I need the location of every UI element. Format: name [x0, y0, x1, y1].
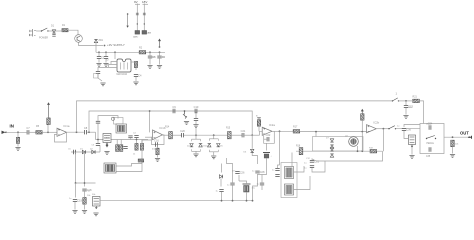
svg-text:C22: C22 — [266, 133, 271, 137]
wire tone corner2 — [312, 159, 316, 161]
wire right cluster link — [253, 181, 258, 201]
wire +9V rail — [96, 51, 139, 53]
node rail at C2 — [105, 51, 107, 53]
node chain A — [137, 23, 138, 24]
wire cluster row — [96, 139, 149, 141]
wire fb2 down — [266, 143, 268, 150]
capacitor chain B mid — [143, 13, 146, 15]
svg-text:IC2b: IC2b — [373, 121, 379, 125]
wire c25 rail — [232, 186, 234, 201]
wire bias3 — [361, 120, 363, 131]
label c31 — [304, 163, 307, 170]
wire vr7 link — [404, 131, 409, 139]
svg-text:10u: 10u — [252, 188, 256, 190]
wire c26 down — [238, 175, 240, 181]
wire U1 pin right — [131, 62, 136, 70]
svg-text:D7: D7 — [326, 138, 330, 140]
label PEDAL SW — [427, 142, 435, 145]
routing rect tone left — [281, 163, 297, 198]
resistor R5 series — [36, 131, 43, 134]
diode D15 tone2 — [330, 154, 333, 157]
label d45 — [80, 149, 94, 151]
resistor R22 out load — [451, 140, 454, 147]
svg-text:IC1a: IC1a — [64, 124, 70, 128]
input terminal — [2, 131, 7, 134]
wire IC1b feedback — [152, 135, 165, 145]
capacitor C16 feedback — [154, 138, 159, 146]
wire r14 to c20 — [172, 134, 181, 136]
label r18 — [296, 146, 301, 148]
wire r11 gnd — [157, 155, 159, 158]
label r14 — [165, 127, 170, 129]
capacitor C11 bias — [194, 119, 198, 121]
node cluster b — [136, 139, 138, 141]
label c18 — [88, 191, 91, 193]
diode pair DP2 — [209, 139, 218, 152]
node link a — [75, 182, 77, 184]
node bias mid — [184, 110, 186, 112]
switch SW3 — [388, 126, 396, 130]
ground bias2 — [184, 122, 189, 125]
label r22 — [455, 144, 459, 146]
tick above R16 — [256, 116, 261, 120]
svg-text:R18: R18 — [296, 146, 301, 148]
wire chain A — [136, 4, 138, 31]
node after C8 — [88, 131, 90, 133]
label c25 — [227, 185, 230, 187]
svg-text:C2: C2 — [106, 60, 110, 62]
label c37 — [257, 184, 260, 186]
svg-text:C20: C20 — [180, 129, 185, 133]
wire stair to dark pot — [116, 140, 152, 166]
resistor R1 — [62, 29, 68, 32]
wire U1 pin left 1 — [111, 62, 117, 65]
wire c27 rail — [246, 192, 248, 201]
capacitor C15b small — [128, 136, 132, 138]
wire IC1a out — [67, 131, 84, 133]
wire lower row — [71, 151, 100, 153]
label r13 — [87, 195, 91, 197]
node rail at C6 — [159, 51, 161, 53]
resistor R21 rail — [413, 99, 420, 102]
node +9V supply — [104, 45, 106, 47]
diode D8 — [208, 144, 211, 147]
wire c27 links — [239, 181, 247, 184]
wire c33 drop — [405, 101, 407, 105]
label c35 — [426, 156, 431, 158]
diode pair DP1 — [192, 139, 201, 151]
wire left col link — [294, 166, 305, 172]
svg-text:1k: 1k — [133, 154, 136, 156]
resistor R15 on line — [228, 131, 232, 139]
electrolytic C27 — [243, 184, 251, 192]
svg-text:C7: C7 — [26, 126, 30, 130]
label sw2 — [396, 92, 398, 96]
wire main into cluster — [95, 132, 97, 139]
svg-text:C19: C19 — [77, 199, 82, 203]
svg-text:1u: 1u — [304, 163, 307, 165]
svg-text:IN: IN — [10, 124, 14, 129]
wire R5 to opamp — [42, 131, 57, 133]
wire C1 drop — [98, 52, 100, 56]
label q2 — [345, 136, 349, 138]
node rail c — [246, 200, 248, 202]
wire C6 to gnd — [159, 59, 161, 65]
capacitor C26 — [235, 171, 245, 175]
ground pot VR2 — [104, 152, 109, 155]
wire d11 down — [220, 179, 222, 187]
node loop takeoff — [76, 131, 78, 133]
node arrow base — [159, 46, 161, 48]
wire c11 to gnd — [195, 121, 197, 124]
svg-text:C4: C4 — [133, 133, 137, 135]
resistor R17 series — [293, 130, 300, 133]
label c26 — [232, 171, 236, 173]
wire switch to D1 — [48, 30, 54, 32]
op-amp IC2b — [367, 121, 380, 133]
node link b — [84, 182, 86, 184]
diode D3 diagonal — [183, 111, 187, 119]
svg-text:R17: R17 — [293, 126, 298, 129]
label r17 — [293, 126, 298, 129]
wire D1 to R1 — [54, 30, 62, 32]
LED B bottom — [142, 31, 151, 35]
wire rail corner down — [419, 101, 423, 124]
diode D11 — [219, 175, 222, 178]
diode D5 lower — [92, 150, 95, 153]
diode D14 tone — [330, 148, 333, 151]
svg-text:10u: 10u — [152, 57, 156, 59]
wire IC2a out — [272, 130, 294, 132]
wire R2 tee to IC1b — [149, 111, 151, 132]
wire c19 gnd — [74, 202, 76, 210]
svg-text:C5: C5 — [68, 149, 72, 151]
ground r13 — [82, 211, 87, 214]
wire v84 — [84, 152, 86, 187]
capacitor C35 box bottom — [429, 147, 431, 151]
label c13 — [92, 145, 96, 147]
wire c13 stub — [97, 140, 99, 144]
op-amp IC2a — [262, 123, 275, 135]
wire loop rail R2 — [89, 111, 252, 135]
node IC2b out — [383, 128, 385, 130]
ground clip2 — [211, 156, 216, 159]
ground under C4 — [133, 82, 138, 85]
bypass box — [420, 124, 444, 154]
capacitor C19 bottom — [73, 199, 83, 203]
capacitor C31 — [310, 159, 320, 163]
svg-text:OUT: OUT — [460, 131, 469, 136]
net arrow +18V up from rail — [158, 39, 161, 48]
capacitor chain A mid — [136, 13, 139, 15]
wire IC1a feedback — [55, 132, 67, 142]
svg-text:D1: D1 — [80, 149, 84, 151]
wire jack to power switch — [36, 30, 41, 32]
node tone a — [357, 150, 359, 152]
wire C4 to gnd — [135, 77, 137, 81]
LED A bottom — [134, 31, 140, 39]
capacitor C10 on rail — [194, 105, 199, 113]
svg-text:C10: C10 — [194, 105, 199, 109]
svg-text:C9: C9 — [172, 105, 176, 109]
wire c22 stub — [264, 138, 267, 140]
svg-text:R14: R14 — [165, 127, 170, 129]
wire stair2 — [116, 164, 142, 172]
wire C7 to R5 — [29, 131, 36, 133]
wire jog up IC2a — [260, 131, 263, 135]
capacitor C5 — [148, 55, 156, 59]
capacitor C17 lower — [74, 150, 76, 154]
wire chain B — [143, 4, 145, 31]
label c5v — [152, 57, 156, 59]
node rail a — [221, 200, 223, 202]
svg-text:1u: 1u — [252, 171, 255, 173]
label chainA bot — [133, 37, 137, 39]
svg-text:D2: D2 — [90, 149, 94, 151]
node box drop — [315, 131, 317, 133]
ground clip1 — [193, 154, 198, 157]
label r15 — [226, 128, 231, 130]
svg-text:1u: 1u — [397, 126, 400, 128]
wire c25 top — [232, 169, 234, 184]
wire stub above clip1 — [195, 128, 197, 135]
svg-text:R15: R15 — [226, 128, 231, 130]
ground c19 — [72, 211, 77, 214]
label dp1 — [187, 146, 206, 148]
diode D12 in box — [330, 139, 333, 142]
svg-text:D6: D6 — [244, 152, 248, 154]
wire c32 down — [312, 161, 325, 172]
svg-text:+9V SUPPLY: +9V SUPPLY — [107, 43, 125, 47]
svg-text:1u: 1u — [272, 170, 275, 172]
capacitor C13 cluster left lower — [96, 144, 100, 146]
label D1 — [51, 25, 55, 28]
label c27 — [252, 188, 256, 190]
label c6v — [162, 57, 166, 59]
wire c18 down — [84, 192, 86, 198]
wire vr4 to rail stub — [99, 200, 101, 202]
wire vr7 gnd — [411, 147, 413, 155]
wire C1 to gnd — [98, 59, 100, 63]
svg-text:MAX1044: MAX1044 — [117, 73, 128, 76]
wire fb resistor drop — [157, 145, 159, 149]
wire main to IC2b — [300, 131, 367, 133]
ground under C2 — [103, 64, 108, 67]
label chainB bot — [148, 33, 152, 35]
wire lower tone line — [296, 150, 383, 152]
ground under C6 — [157, 66, 162, 69]
resistor R18 tone — [299, 148, 303, 155]
svg-text:10k: 10k — [87, 195, 91, 197]
label vr4 — [92, 194, 96, 196]
capacitor C32 — [310, 166, 314, 168]
wire c15 down — [136, 138, 138, 144]
capacitor C37 — [260, 183, 264, 185]
svg-text:R2: R2 — [139, 47, 143, 50]
svg-text:IC2a: IC2a — [269, 123, 275, 127]
wire C2 drop — [105, 52, 107, 56]
node bias join — [47, 131, 49, 133]
wire c12 down — [97, 124, 99, 140]
wire clip1 drop — [195, 135, 197, 139]
node IC2a in — [251, 134, 253, 136]
wire C5 drop — [149, 52, 151, 55]
capacitor C18 mid-left — [82, 188, 92, 192]
capacitor C28 — [255, 170, 265, 174]
svg-text:C21: C21 — [241, 129, 246, 133]
wire IC2a feedback — [264, 131, 275, 143]
label ZD — [99, 39, 104, 42]
transistor Q2 — [349, 137, 359, 147]
pot VR1 dark — [116, 124, 127, 133]
ground r22 — [450, 155, 455, 158]
label c23 — [271, 156, 273, 158]
wire R4 drop — [17, 132, 19, 137]
svg-text:C28: C28 — [260, 170, 265, 174]
svg-text:C16: C16 — [154, 138, 159, 142]
label R2 — [139, 47, 143, 50]
wire C6 drop — [159, 52, 161, 55]
resistor R3 beside U1 — [134, 61, 137, 67]
label U1 MAX1044 — [117, 73, 128, 76]
capacitor C6 — [157, 55, 165, 59]
label R1 — [62, 24, 66, 27]
resistor R14 series — [169, 131, 173, 139]
wire bias drop right — [195, 112, 197, 119]
wire IC1b out — [163, 134, 169, 136]
wire c33 gnd — [405, 108, 407, 115]
label c28 — [252, 171, 255, 173]
capacitor C8 after IC1a — [84, 126, 88, 134]
diode D1 — [52, 30, 55, 33]
resistor R9 mid — [135, 143, 138, 150]
node cluster a — [97, 139, 99, 141]
diode D13 in box — [330, 145, 333, 148]
capacitor C7 input — [26, 126, 30, 134]
power switch SW1 — [41, 28, 49, 32]
label OUT — [460, 131, 469, 136]
wire c15b down — [130, 138, 132, 139]
label c29 — [272, 170, 275, 172]
wire r13 gnd — [84, 204, 86, 210]
label c31b — [306, 158, 311, 160]
wire into IC1b — [145, 136, 153, 138]
pot VR6 dark — [285, 184, 294, 195]
wire q2 drop — [357, 146, 359, 151]
label VR2 — [104, 137, 110, 140]
wire r22 gnd — [452, 147, 454, 154]
wire c24 rail — [221, 192, 223, 201]
svg-text:C26: C26 — [240, 171, 245, 175]
svg-text:PEDAL: PEDAL — [427, 142, 435, 145]
svg-text:R5: R5 — [36, 125, 40, 128]
svg-text:50k: 50k — [92, 194, 96, 196]
charge pump IC U1 — [117, 59, 131, 72]
wire R1 to Q1 — [68, 30, 78, 34]
capacitor C34 box top — [428, 121, 433, 129]
svg-text:C8: C8 — [84, 126, 88, 130]
ground bias — [193, 125, 198, 128]
node tone b — [361, 150, 363, 152]
wire c20 on — [184, 134, 228, 136]
wire c37 down — [261, 186, 263, 191]
capacitor C14 cluster — [123, 147, 127, 149]
wire c36 link — [404, 125, 420, 128]
ground c33 — [403, 116, 408, 119]
svg-text:C31: C31 — [314, 159, 319, 163]
capacitor C2 — [104, 57, 108, 59]
label c34 — [426, 124, 431, 126]
label R5 — [36, 125, 40, 128]
wire v75 low — [75, 183, 77, 198]
ground vr4 — [93, 213, 98, 216]
capacitor C9 on rail — [172, 105, 176, 113]
pot VR5 dark — [285, 167, 294, 179]
pot VR4 bottom — [93, 197, 101, 209]
svg-text:1u: 1u — [69, 198, 72, 200]
svg-text:10u: 10u — [162, 57, 166, 59]
svg-text:1u: 1u — [304, 168, 307, 170]
label +9V SUPPLY — [107, 43, 125, 47]
label net A top — [134, 0, 140, 4]
label d1011 — [244, 152, 248, 154]
svg-text:C36: C36 — [406, 128, 411, 132]
resistor R7 cluster — [116, 145, 119, 152]
ground input — [15, 148, 20, 151]
svg-text:C1: C1 — [101, 56, 105, 60]
node clip2 — [213, 134, 215, 136]
wire node252 drop — [251, 135, 253, 149]
resistor R16 bias2 — [257, 120, 260, 127]
label r21 — [413, 96, 418, 99]
wire d10 link — [252, 153, 257, 164]
wire Q1 emitter down to supply node — [79, 43, 97, 46]
wire r10 top — [141, 140, 143, 144]
wire rail to U1 — [114, 52, 116, 59]
node chain B — [144, 23, 145, 24]
electrolytic C23 — [263, 153, 270, 159]
wire IC2b feedback drop — [382, 129, 384, 152]
label c16 — [152, 149, 156, 151]
wire IC2b in drop — [361, 132, 363, 152]
svg-text:1u: 1u — [216, 191, 219, 193]
node rail at C5 — [149, 51, 151, 53]
DC power jack J1 — [29, 29, 36, 37]
capacitor C33 — [404, 105, 414, 109]
capacitor C21 series — [241, 129, 246, 137]
wire bottom rail — [100, 200, 253, 202]
wire C5 to gnd — [149, 59, 151, 65]
wire c28 down — [257, 174, 259, 181]
ground under C1 — [96, 64, 101, 67]
svg-text:1u: 1u — [257, 184, 260, 186]
svg-text:1u: 1u — [227, 185, 230, 187]
resistor R6 bias — [47, 118, 50, 125]
resistor R20 bias3 — [361, 114, 364, 121]
wire lower row to cluster — [99, 146, 101, 152]
resistor R11 fb to gnd — [156, 148, 159, 155]
node input — [17, 131, 19, 133]
node after IC2a — [279, 130, 281, 132]
resistor R8 cluster — [120, 145, 123, 152]
ground under C3 — [100, 83, 105, 86]
capacitor C24 — [219, 190, 223, 192]
node rail d — [252, 200, 254, 202]
label c15 — [133, 133, 137, 135]
op-amp IC1a — [57, 124, 70, 136]
wire clip2 gnd — [213, 152, 215, 156]
capacitor C1 — [97, 56, 105, 60]
